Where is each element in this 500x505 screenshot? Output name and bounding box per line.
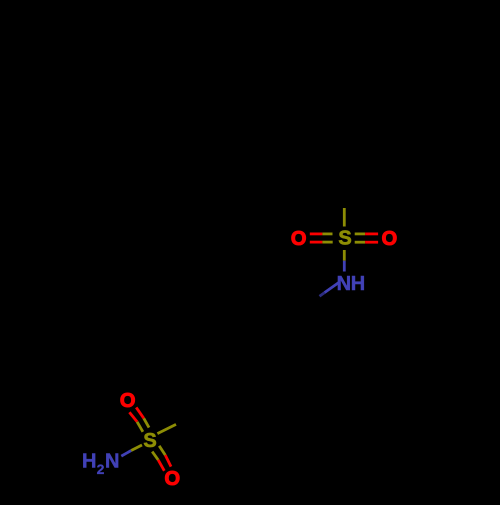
S=O double bond left, line 2 — [310, 241, 333, 244]
S=O double bond right, line 2 — [355, 241, 378, 244]
S=O double bond lower-right, line 2 — [159, 446, 171, 467]
S=O double bond lower-right, line 1 (S half olive / O half red) — [152, 452, 164, 471]
S=O double bond left, line 1 (O half red / S half olive) — [310, 232, 333, 235]
wire N-CH2 (N half blue, fades to black carbon) — [325, 283, 339, 293]
wire S-N (S half olive) — [343, 250, 346, 261]
wire S-C ring bond (S half olive, carbon half black) — [157, 424, 176, 433]
wire C-S (sulfur half, olive) — [343, 208, 346, 227]
svg-text:H: H — [351, 273, 365, 295]
svg-text:O: O — [382, 228, 398, 250]
svg-text:O: O — [291, 228, 307, 250]
wire S-N (N half blue) — [343, 261, 346, 272]
svg-text:2: 2 — [97, 461, 105, 477]
svg-text:O: O — [120, 390, 136, 412]
svg-text:N: N — [105, 451, 119, 473]
S=O double bond right, line 1 (S half olive / O half red) — [355, 232, 378, 235]
svg-text:H: H — [82, 451, 96, 473]
atom label NH — [337, 273, 366, 295]
svg-text:O: O — [165, 468, 181, 490]
S=O double bond upper-left, line 1 (O half red / S half olive) — [129, 412, 143, 432]
S=O double bond upper-left, line 2 — [136, 407, 149, 427]
wire N-S (N half blue) — [121, 451, 131, 457]
svg-text:S: S — [338, 228, 351, 250]
wire N-S (S half olive) — [131, 445, 142, 451]
atom label H2N — [82, 451, 119, 477]
svg-text:S: S — [143, 430, 156, 452]
